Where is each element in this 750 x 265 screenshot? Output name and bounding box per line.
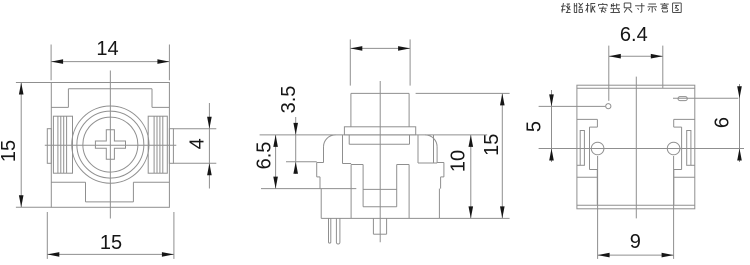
svg-text:14: 14 bbox=[96, 38, 118, 60]
svg-text:6.4: 6.4 bbox=[620, 24, 648, 46]
svg-text:3.5: 3.5 bbox=[278, 86, 300, 114]
svg-text:10: 10 bbox=[447, 150, 469, 172]
svg-text:6.5: 6.5 bbox=[254, 142, 276, 170]
svg-text:15: 15 bbox=[100, 232, 122, 254]
svg-text:15: 15 bbox=[0, 140, 20, 162]
svg-text:4: 4 bbox=[186, 138, 208, 149]
svg-text:5: 5 bbox=[523, 121, 545, 132]
svg-text:6: 6 bbox=[711, 117, 733, 128]
svg-text:15: 15 bbox=[481, 134, 503, 156]
svg-text:9: 9 bbox=[630, 231, 641, 253]
